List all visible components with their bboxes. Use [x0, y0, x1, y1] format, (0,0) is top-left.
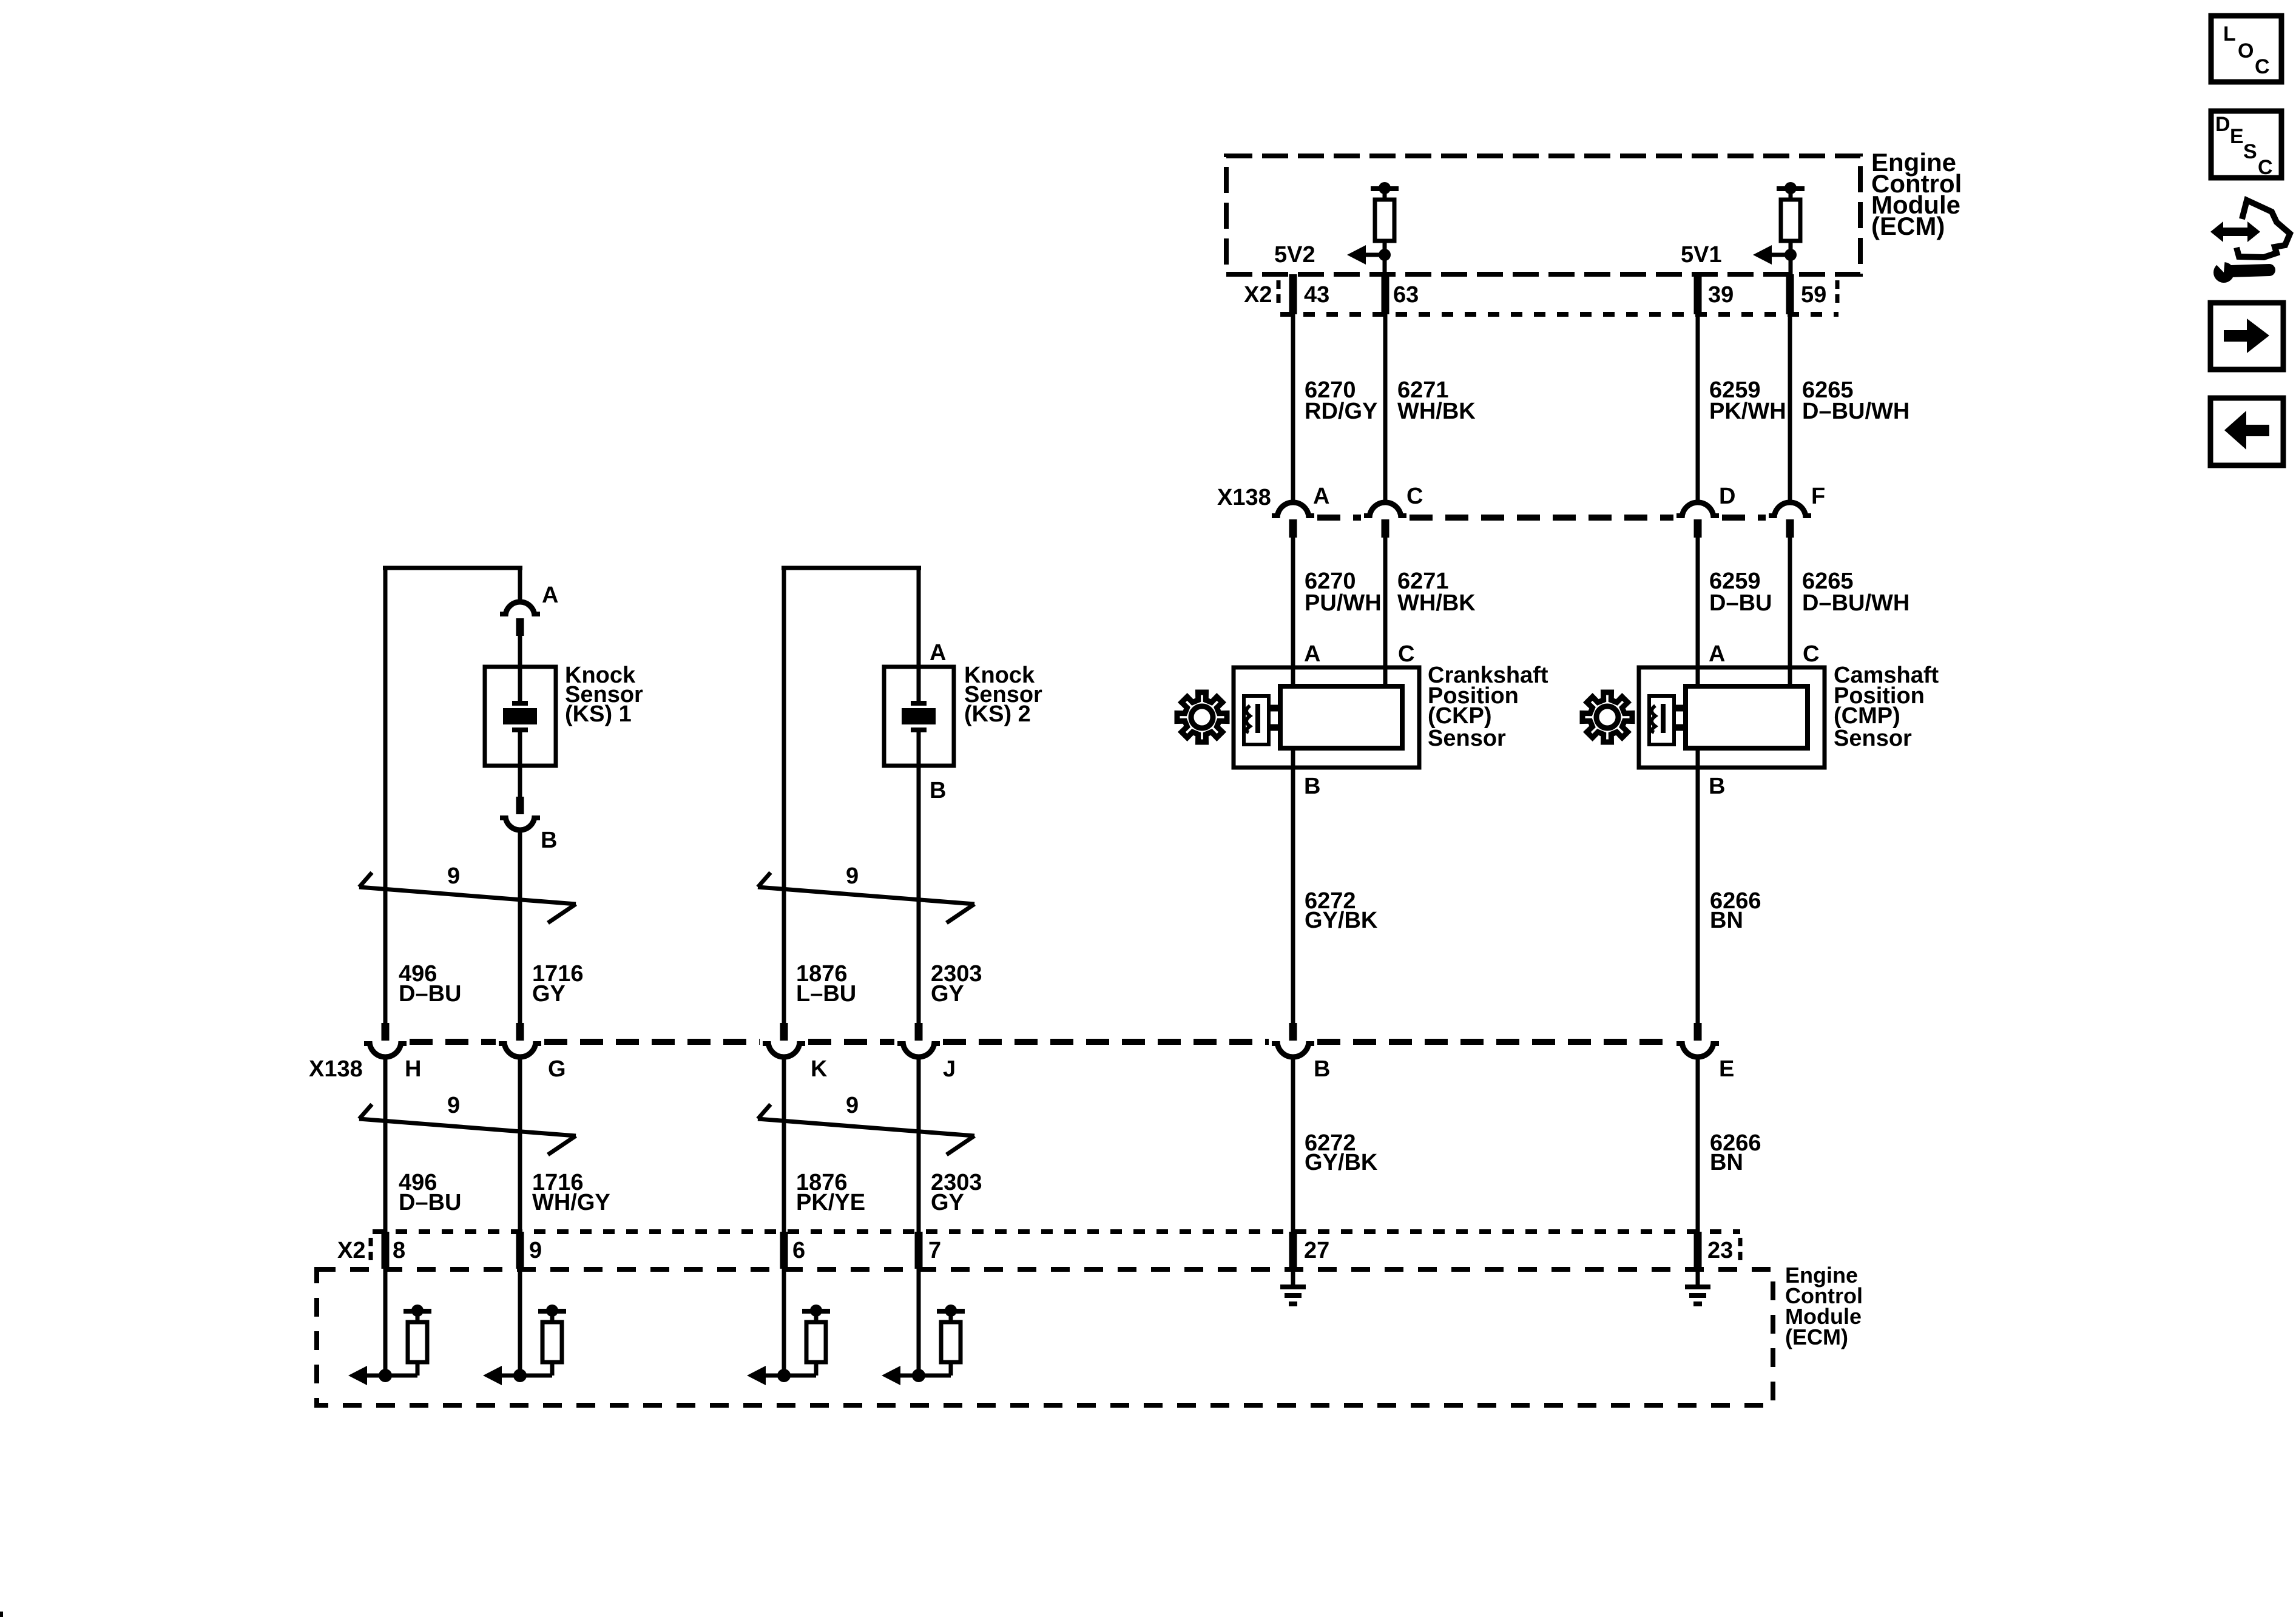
svg-text:PU/WH: PU/WH — [1305, 590, 1382, 616]
svg-text:A: A — [1313, 484, 1329, 509]
svg-text:GY/BK: GY/BK — [1305, 908, 1378, 933]
svg-text:D: D — [1719, 484, 1735, 509]
svg-text:9: 9 — [529, 1238, 542, 1263]
svg-text:X2: X2 — [337, 1238, 365, 1263]
svg-text:23: 23 — [1707, 1238, 1733, 1263]
svg-text:GY: GY — [931, 1190, 964, 1215]
svg-text:BN: BN — [1710, 908, 1743, 933]
svg-text:A: A — [1709, 641, 1725, 667]
svg-text:(CMP): (CMP) — [1834, 703, 1900, 729]
svg-text:B: B — [541, 828, 557, 853]
svg-text:PK/YE: PK/YE — [796, 1190, 865, 1215]
svg-text:(ECM): (ECM) — [1871, 212, 1945, 240]
svg-text:(CKP): (CKP) — [1428, 703, 1492, 729]
svg-text:9: 9 — [447, 1093, 460, 1118]
svg-text:C: C — [1398, 641, 1414, 667]
svg-text:43: 43 — [1304, 282, 1329, 308]
svg-text:5V2: 5V2 — [1274, 242, 1315, 268]
svg-text:D–BU/WH: D–BU/WH — [1802, 590, 1909, 616]
svg-text:9: 9 — [447, 863, 460, 889]
svg-text:27: 27 — [1304, 1238, 1329, 1263]
svg-text:59: 59 — [1801, 282, 1826, 308]
svg-text:WH/BK: WH/BK — [1397, 590, 1476, 616]
svg-text:(ECM): (ECM) — [1785, 1325, 1848, 1349]
svg-text:8: 8 — [393, 1238, 405, 1263]
svg-text:6: 6 — [792, 1238, 805, 1263]
svg-text:Sensor: Sensor — [1834, 726, 1912, 751]
svg-text:H: H — [405, 1056, 421, 1082]
svg-text:A: A — [542, 582, 558, 608]
svg-text:E: E — [1719, 1056, 1734, 1082]
svg-text:GY: GY — [532, 981, 566, 1007]
svg-text:E: E — [2230, 125, 2244, 148]
svg-text:GY/BK: GY/BK — [1305, 1150, 1378, 1175]
svg-text:A: A — [1304, 641, 1320, 667]
svg-text:G: G — [548, 1056, 566, 1082]
svg-text:7: 7 — [928, 1238, 941, 1263]
svg-text:X2: X2 — [1244, 282, 1272, 308]
svg-text:9: 9 — [846, 1093, 859, 1118]
svg-text:D–BU: D–BU — [399, 1190, 461, 1215]
svg-text:C: C — [1406, 484, 1423, 509]
svg-text:(KS) 1: (KS) 1 — [565, 701, 632, 727]
svg-text:J: J — [943, 1056, 956, 1082]
svg-text:S: S — [2243, 140, 2257, 163]
svg-text:39: 39 — [1708, 282, 1734, 308]
svg-text:C: C — [2255, 55, 2270, 78]
svg-text:D: D — [2215, 113, 2230, 136]
svg-text:X138: X138 — [1217, 485, 1271, 510]
svg-text:F: F — [1811, 484, 1825, 509]
svg-text:RD/GY: RD/GY — [1305, 399, 1377, 424]
svg-text:B: B — [930, 778, 946, 803]
svg-text:9: 9 — [846, 863, 859, 889]
svg-text:C: C — [2258, 156, 2273, 179]
svg-text:D–BU: D–BU — [399, 981, 461, 1007]
svg-text:B: B — [1314, 1056, 1330, 1082]
svg-text:WH/BK: WH/BK — [1397, 399, 1476, 424]
svg-text:5V1: 5V1 — [1681, 242, 1722, 268]
svg-text:X138: X138 — [309, 1056, 363, 1082]
svg-text:GY: GY — [931, 981, 964, 1007]
svg-text:K: K — [811, 1056, 828, 1082]
svg-text:BN: BN — [1710, 1150, 1743, 1175]
svg-text:O: O — [2238, 39, 2254, 62]
svg-text:C: C — [1803, 641, 1819, 667]
svg-text:Sensor: Sensor — [1428, 726, 1506, 751]
svg-text:WH/GY: WH/GY — [532, 1190, 610, 1215]
svg-text:L–BU: L–BU — [796, 981, 856, 1007]
svg-text:D–BU/WH: D–BU/WH — [1802, 399, 1909, 424]
svg-text:(KS) 2: (KS) 2 — [964, 701, 1031, 727]
svg-text:D–BU: D–BU — [1709, 590, 1772, 616]
svg-text:B: B — [1304, 774, 1320, 799]
svg-text:L: L — [2223, 22, 2236, 46]
svg-text:PK/WH: PK/WH — [1709, 399, 1786, 424]
svg-text:63: 63 — [1393, 282, 1419, 308]
svg-text:A: A — [930, 640, 946, 666]
svg-text:B: B — [1709, 774, 1725, 799]
